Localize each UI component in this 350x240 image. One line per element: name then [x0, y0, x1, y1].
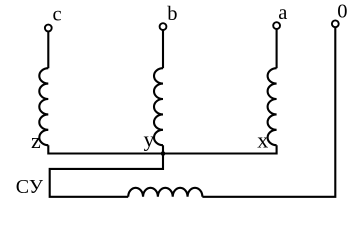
svg-text:z: z: [31, 128, 41, 153]
winding phase c (coil): [39, 68, 48, 145]
control winding coil (horizontal): [128, 188, 202, 197]
junction node y-bus: [161, 151, 166, 156]
svg-text:b: b: [167, 3, 177, 25]
terminal a circle: [273, 22, 280, 29]
svg-text:a: a: [278, 2, 287, 24]
wire a lead: [276, 29, 278, 68]
winding phase a (coil): [268, 68, 277, 145]
bus wire z-y-x with corners: [48, 145, 276, 153]
wire b lead: [162, 30, 164, 68]
wire bottom right and 0 riser: [202, 27, 335, 196]
winding phase b (coil): [154, 68, 163, 145]
svg-text:0: 0: [337, 0, 347, 22]
terminal 0 circle: [332, 20, 339, 27]
svg-text:x: x: [257, 127, 268, 152]
terminal c circle: [45, 25, 52, 32]
wire y tap: down, left, down to control loop: [50, 145, 163, 197]
svg-text:y: y: [144, 127, 155, 152]
wire c lead: [47, 32, 49, 69]
svg-text:c: c: [53, 4, 62, 26]
terminal b circle: [160, 23, 167, 30]
svg-text:СУ: СУ: [16, 176, 44, 198]
